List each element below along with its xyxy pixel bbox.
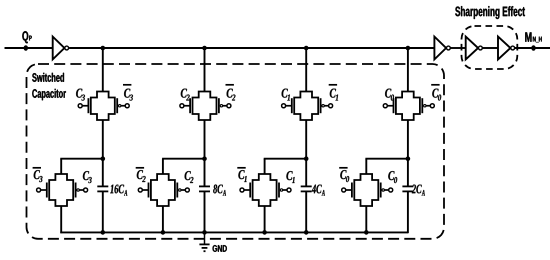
junction top rail col2 [202,46,207,51]
inverter U3: triangle [466,37,478,60]
lower transmission gate SW2b: inversion bubble on right gate [179,189,181,191]
lower transmission gate SW4b: channel outline [354,174,378,206]
sharpening-effect boundary (dashed box) [462,26,518,69]
label "Switched" [32,73,64,82]
lower transmission gate SW1b: left gate lead wire [40,189,47,191]
control label C2 (upper left) [181,89,190,101]
inverter U1: triangle [53,37,65,60]
wire col1 top rail to upper tgate [102,48,104,92]
upper transmission gate SW2a: right gate lead wire [223,105,228,107]
junction col3 mid node [304,156,309,161]
junction bottom rail col2 cap [202,230,207,235]
upper transmission gate SW2a: inversion bubble on right gate [220,105,222,107]
upper transmission gate SW2a: left gate lead wire [184,105,191,107]
control label C3 (lower right) [83,171,92,183]
upper transmission gate SW1a: left gate lead wire [82,105,89,107]
upper transmission gate SW2a: left control terminal [180,104,184,108]
control label C0bar (upper right) [431,85,441,101]
lower transmission gate SW2b: left gate lead wire [142,189,149,191]
control label C1 (lower right) [286,171,294,183]
wire col3 top rail to upper tgate [305,48,307,92]
upper transmission gate SW1a: right control terminal [125,104,129,108]
control label C3bar (upper right) [123,85,133,101]
junction top rail col3 [304,46,309,51]
upper transmission gate SW3a: inversion bubble on right gate [322,105,324,107]
switched-capacitor block boundary (dashed box) [27,64,445,239]
lower transmission gate SW3b: left gate plate [249,183,251,198]
capacitor 2CA [402,186,413,191]
wire col3 lower tgate to bottom rail [264,206,266,232]
junction top rail col4 [406,46,411,51]
junction col4 mid node [406,156,411,161]
wire col3 lower tgate top stub [264,159,266,174]
wire col1 mid horizontal to lower tgate [60,158,103,160]
lower transmission gate SW3b: left control terminal [240,188,244,192]
lower transmission gate SW1b: right gate plate [75,183,77,198]
upper transmission gate SW4a: left gate plate [393,98,395,113]
wire U3 out to U4 in [483,47,498,49]
wire col4 mid node to capacitor [407,159,409,187]
control label C0bar (lower left) [339,168,349,182]
wire col2 lower tgate to bottom rail [162,206,164,232]
control label C1bar (lower left) [237,168,246,182]
inverter U1: output bubble [65,46,69,50]
capacitor 8CA [199,186,210,191]
wire col1 upper tgate to mid node [102,120,104,159]
upper transmission gate SW3a: left gate plate [291,98,293,113]
wire col2 capacitor to bottom rail [204,191,206,232]
inverter U2: triangle [434,37,446,60]
upper transmission gate SW4a: right gate plate [421,98,423,113]
wire col3 upper tgate to mid node [305,120,307,159]
lower transmission gate SW3b: channel outline [253,174,277,206]
node MN_H label [525,32,541,42]
lower transmission gate SW1b: channel outline [49,174,73,206]
wire col2 lower tgate top stub [162,159,164,174]
wire col3 mid node to capacitor [305,159,307,187]
inverter U4: output bubble [511,46,515,50]
upper transmission gate SW3a: right gate plate [320,98,322,113]
wire col3 mid horizontal to lower tgate [264,158,307,160]
upper transmission gate SW1a: inversion bubble on right gate [119,105,121,107]
upper transmission gate SW3a: channel outline [294,92,318,121]
upper transmission gate SW1a: right gate lead wire [121,105,126,107]
junction top rail col1 [101,46,106,51]
label "Capacitor" [32,89,66,100]
upper transmission gate SW1a: channel outline [91,92,115,121]
control label C1bar (upper right) [329,85,338,101]
upper transmission gate SW4a: inversion bubble on right gate [424,105,426,107]
lower transmission gate SW2b: left control terminal [138,188,142,192]
lower transmission gate SW3b: right gate plate [278,183,280,198]
junction col1 mid node [101,156,106,161]
upper transmission gate SW2a: channel outline [193,92,217,121]
upper transmission gate SW3a: right control terminal [329,104,333,108]
lower transmission gate SW4b: left gate lead wire [345,189,352,191]
lower transmission gate SW2b: right gate lead wire [181,189,186,191]
inverter U4: triangle [498,37,510,60]
upper transmission gate SW3a: left gate lead wire [285,105,292,107]
upper transmission gate SW3a: right gate lead wire [324,105,329,107]
label GND [213,245,227,252]
junction at output MN_H [531,45,535,51]
label "Sharpening Effect" [455,6,525,19]
lower transmission gate SW2b: right gate plate [176,183,178,198]
lower transmission gate SW1b: right gate lead wire [79,189,84,191]
upper transmission gate SW3a: left control terminal [282,104,286,108]
upper transmission gate SW2a: left gate plate [189,98,191,113]
lower transmission gate SW3b: inversion bubble on right gate [280,189,282,191]
junction col2 mid node [202,156,207,161]
control label C0 (lower right) [388,171,397,183]
lower transmission gate SW4b: left gate plate [351,183,353,198]
wire col4 capacitor to bottom rail [407,191,409,233]
upper transmission gate SW1a: left gate plate [87,98,89,113]
wire col2 mid node to capacitor [204,159,206,187]
lower transmission gate SW1b: right control terminal [84,188,88,192]
value label 16CA [110,185,127,196]
wire col2 top rail to upper tgate [204,48,206,92]
wire col1 lower tgate top stub [60,159,62,174]
upper transmission gate SW2a: right gate plate [218,98,220,113]
lower transmission gate SW1b: left gate plate [46,183,48,198]
junction bottom rail col3 tgate [262,230,267,235]
control label C2 (lower right) [185,171,194,183]
inverter U2: output bubble [447,46,451,50]
wire U2 out to sharpening box [450,47,465,49]
wire col1 lower tgate to bottom rail [60,206,62,233]
upper transmission gate SW4a: right gate lead wire [426,105,431,107]
upper transmission gate SW4a: left gate lead wire [387,105,394,107]
value label 8CA [213,185,226,196]
control label C1 (upper left) [282,89,290,101]
lower transmission gate SW2b: right control terminal [185,188,189,192]
junction at QP [24,45,28,51]
node QP label [22,31,31,43]
wire col4 mid horizontal to lower tgate [365,158,408,160]
upper transmission gate SW4a: right control terminal [430,104,434,108]
control label C3 (upper left) [76,89,85,101]
upper transmission gate SW4a: channel outline [396,92,420,121]
wire col2 upper tgate to mid node [204,120,206,159]
wire col4 lower tgate to bottom rail [365,206,367,232]
control label C0 (upper left) [385,89,394,101]
lower transmission gate SW4b: left control terminal [342,188,346,192]
wire col1 capacitor to bottom rail [102,191,104,232]
wire col4 upper tgate to mid node [407,120,409,159]
wire top rail U1 out to U2 in [69,47,434,49]
control label C2bar (lower left) [136,168,146,182]
wire col2 mid horizontal to lower tgate [162,158,204,160]
lower transmission gate SW3b: right gate lead wire [283,189,288,191]
lower transmission gate SW1b: inversion bubble on right gate [77,189,79,191]
control label C2bar (upper right) [226,85,236,101]
junction bottom rail col1 cap [101,230,106,235]
capacitor 4CA [301,186,312,191]
value label 2CA [412,185,425,196]
lower transmission gate SW1b: left control terminal [37,188,41,192]
value label 4CA [312,185,325,196]
control label C3bar (lower left) [33,168,43,182]
junction bottom rail col2 tgate [161,230,166,235]
junction bottom rail col3 cap [304,230,309,235]
wire col3 capacitor to bottom rail [305,191,307,232]
wire col4 top rail to upper tgate [407,48,409,92]
upper transmission gate SW1a: left control terminal [78,104,82,108]
wire col4 lower tgate top stub [365,159,367,174]
lower transmission gate SW4b: right gate lead wire [384,189,389,191]
lower transmission gate SW4b: right gate plate [380,183,382,198]
lower transmission gate SW3b: right control terminal [287,188,291,192]
lower transmission gate SW4b: inversion bubble on right gate [382,189,384,191]
capacitor 16CA [97,186,108,191]
wire col1 mid node to capacitor [102,159,104,187]
wire bottom rail (capacitor common) [60,231,408,233]
ground GND symbol [199,232,209,251]
wire input QP segment [5,47,53,49]
upper transmission gate SW4a: left control terminal [383,104,387,108]
lower transmission gate SW2b: left gate plate [148,183,150,198]
lower transmission gate SW4b: right control terminal [389,188,393,192]
upper transmission gate SW1a: right gate plate [116,98,118,113]
lower transmission gate SW2b: channel outline [151,174,175,206]
lower transmission gate SW3b: left gate lead wire [244,189,251,191]
junction bottom rail col4 tgate [364,230,369,235]
upper transmission gate SW2a: right control terminal [227,104,231,108]
wire U4 out to output MN_H [515,47,550,49]
inverter U3: output bubble [479,46,483,50]
